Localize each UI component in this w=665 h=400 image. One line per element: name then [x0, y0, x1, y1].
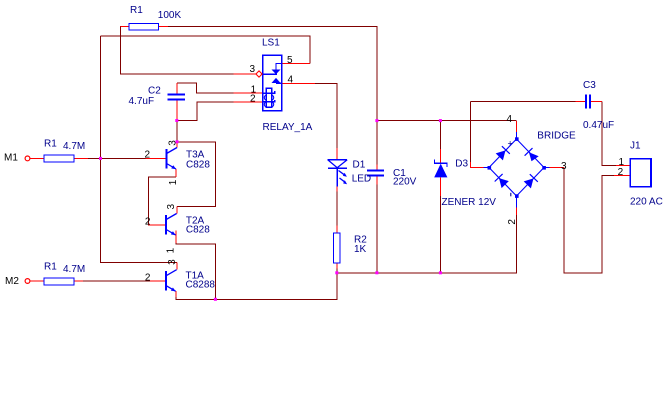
- svg-text:2: 2: [250, 94, 256, 105]
- svg-text:2: 2: [618, 167, 624, 178]
- svg-text:220 AC: 220 AC: [630, 197, 663, 208]
- svg-text:R1: R1: [130, 5, 143, 16]
- svg-text:C828: C828: [186, 160, 210, 171]
- svg-text:D1: D1: [353, 159, 366, 170]
- svg-text:D3: D3: [455, 159, 468, 170]
- svg-text:3: 3: [561, 161, 567, 172]
- svg-text:LS1: LS1: [262, 38, 280, 49]
- svg-text:2: 2: [145, 272, 151, 283]
- svg-text:J1: J1: [630, 141, 641, 152]
- svg-text:4.7uF: 4.7uF: [129, 96, 155, 107]
- svg-text:C828: C828: [186, 225, 210, 236]
- svg-text:2: 2: [145, 150, 151, 161]
- svg-text:4.7M: 4.7M: [63, 141, 85, 152]
- svg-text:M1: M1: [4, 153, 18, 164]
- svg-text:BRIDGE: BRIDGE: [537, 131, 576, 142]
- svg-text:2: 2: [145, 216, 151, 227]
- svg-text:R1: R1: [44, 261, 57, 272]
- svg-text:LED: LED: [352, 174, 371, 185]
- svg-text:3: 3: [168, 140, 179, 146]
- svg-text:C8288: C8288: [186, 280, 216, 291]
- svg-text:R1: R1: [44, 139, 57, 150]
- svg-text:1: 1: [166, 247, 177, 253]
- svg-text:1: 1: [168, 179, 179, 185]
- svg-text:3: 3: [166, 204, 177, 210]
- svg-text:4.7M: 4.7M: [63, 264, 85, 275]
- svg-text:3: 3: [250, 64, 256, 75]
- svg-text:1K: 1K: [354, 244, 367, 255]
- svg-text:3: 3: [167, 259, 178, 265]
- svg-text:RELAY_1A: RELAY_1A: [263, 122, 313, 133]
- svg-text:5: 5: [287, 55, 293, 66]
- svg-text:C2: C2: [148, 86, 161, 97]
- svg-text:4: 4: [288, 74, 294, 85]
- svg-text:ZENER 12V: ZENER 12V: [442, 197, 497, 208]
- svg-text:220V: 220V: [393, 176, 417, 187]
- svg-text:0.47uF: 0.47uF: [583, 120, 614, 131]
- svg-text:4: 4: [507, 114, 513, 125]
- svg-text:M2: M2: [5, 276, 19, 287]
- svg-text:+: +: [508, 138, 513, 148]
- svg-text:2: 2: [507, 219, 518, 225]
- svg-text:C3: C3: [583, 80, 596, 91]
- svg-text:100K: 100K: [158, 10, 182, 21]
